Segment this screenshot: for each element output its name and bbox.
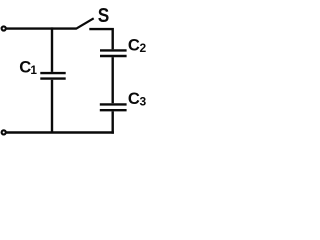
wire C2 to C3 — [111, 57, 113, 103]
capacitor C1 top plate — [40, 72, 65, 74]
wire C1 branch lower — [51, 80, 53, 133]
wire C3 down to bottom-right corner — [111, 111, 113, 133]
svg-text:S: S — [98, 5, 110, 27]
capacitor C2 top plate — [100, 49, 127, 51]
capacitor C2 bottom plate — [100, 55, 127, 57]
wire bottom horizontal — [6, 131, 114, 133]
wire C1 branch upper — [51, 27, 53, 72]
capacitor C3 bottom plate — [100, 109, 127, 111]
switch S blade — [76, 18, 94, 29]
wire top-left horizontal — [6, 27, 76, 29]
capacitor C3 top plate — [100, 103, 127, 105]
capacitor C1 bottom plate — [40, 77, 65, 79]
wire top-right corner down to C2 — [111, 28, 113, 49]
terminal bottom-left — [2, 130, 6, 134]
wire switch right contact — [89, 28, 111, 30]
terminal top-left — [2, 26, 6, 30]
